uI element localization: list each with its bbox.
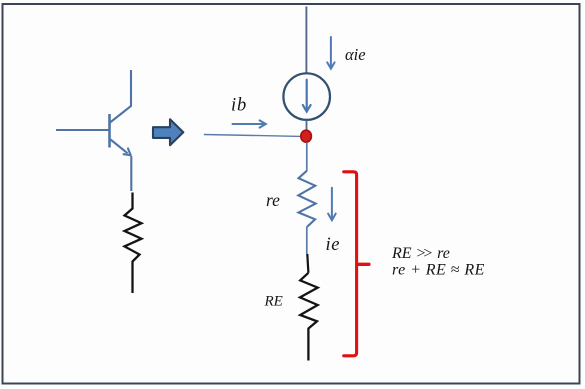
emitter arrowhead: [124, 149, 131, 156]
svg-text:αie: αie: [345, 45, 366, 64]
base bar: [108, 114, 111, 148]
emitter wire down: [130, 156, 132, 191]
svg-text:re: re: [266, 190, 280, 210]
ie current arrow: [328, 188, 336, 221]
resistor RE (black zigzag): [300, 273, 318, 361]
wire from base to node: [204, 135, 302, 137]
current source U1 (circle): [283, 73, 330, 120]
ib current arrow: [233, 120, 266, 127]
svg-text:re + RE ≈ RE: re + RE ≈ RE: [392, 261, 485, 278]
current source arrow: [303, 80, 311, 112]
resistor re (blue zigzag): [298, 171, 315, 227]
wire node to re: [306, 143, 308, 172]
red brace middle tick: [358, 263, 369, 266]
svg-text:ib: ib: [231, 96, 247, 116]
emitter lead wire: [111, 140, 128, 154]
base lead wire: [56, 129, 109, 131]
red brace: [344, 172, 357, 356]
top supply wire: [305, 7, 307, 73]
svg-text:RE: RE: [264, 294, 283, 310]
transistor (BJT symbol): [56, 70, 131, 191]
svg-text:ie: ie: [326, 235, 341, 255]
collector lead wire: [110, 70, 131, 123]
wire re to RE: [306, 227, 308, 255]
node junction (red dot): [301, 130, 312, 142]
alpha-ie current arrow: [327, 37, 334, 69]
resistor (below transistor, zigzag): [125, 193, 142, 294]
svg-text:RE >> re: RE >> re: [391, 245, 450, 262]
block arrow (transformation): [153, 119, 183, 145]
wire circle to node: [306, 120, 308, 131]
